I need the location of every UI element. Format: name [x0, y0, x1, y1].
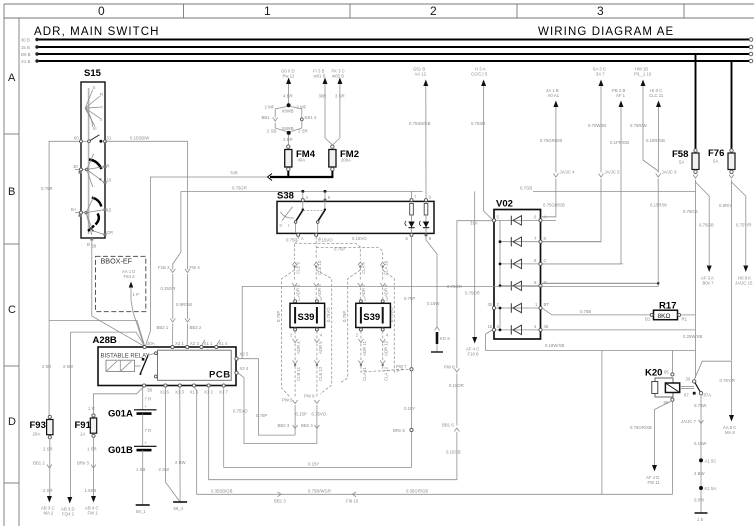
V02 diode 6 — [496, 325, 539, 334]
svg-text:PW 6: PW 6 — [304, 394, 315, 399]
svg-text:0.15W: 0.15W — [694, 441, 707, 446]
connector CLA 9 — [358, 262, 366, 282]
svg-text:15: 15 — [488, 324, 493, 329]
connector ADR 1 — [292, 283, 300, 300]
fuse F93 — [30, 415, 54, 439]
svg-text:0.75P: 0.75P — [286, 238, 297, 243]
svg-text:w01 B: w01 B — [314, 74, 326, 79]
svg-text:1 SB: 1 SB — [136, 467, 145, 472]
svg-text:45: 45 — [544, 324, 549, 329]
svg-text:Pw 12: Pw 12 — [283, 74, 296, 79]
bus line D6 — [21, 52, 753, 57]
terminal 4A 1 B — [540, 88, 575, 217]
A28B bottom pins — [143, 384, 229, 395]
svg-text:0.15Y: 0.15Y — [404, 406, 415, 411]
svg-text:B1: B1 — [645, 317, 651, 322]
terminal 6A 3 C — [542, 67, 620, 242]
wire column X2 3 (S15 31) — [105, 136, 202, 346]
wire 0.75OR to AF 4 C — [465, 191, 480, 356]
svg-text:0.75GR/SB: 0.75GR/SB — [630, 425, 652, 430]
terminal HM 1B — [542, 67, 677, 284]
svg-text:MA 8: MA 8 — [725, 430, 735, 435]
svg-text:2 5R: 2 5R — [42, 364, 51, 369]
svg-text:0.1FR/GB: 0.1FR/GB — [610, 140, 629, 145]
bus line 30 — [21, 37, 753, 42]
svg-text:A0 A1: A0 A1 — [548, 93, 560, 98]
svg-text:0.75OR: 0.75OR — [465, 291, 480, 296]
S39 dashed feed left — [295, 236, 383, 259]
F91 lower wire — [77, 437, 99, 515]
A28B switch blade — [140, 352, 158, 378]
V02 diode 1 — [496, 216, 539, 225]
svg-text:0.75WSB: 0.75WSB — [588, 123, 606, 128]
svg-text:0.15R/GB: 0.15R/GB — [646, 138, 665, 143]
svg-text:0.75VO: 0.75VO — [312, 412, 327, 417]
svg-text:0.15OR: 0.15OR — [449, 383, 464, 388]
resistor R17 — [645, 301, 688, 322]
svg-text:0.75B/WGR: 0.75B/WGR — [308, 489, 331, 494]
svg-text:0.5R/Y: 0.5R/Y — [719, 203, 732, 208]
svg-text:BB1 3: BB1 3 — [274, 499, 286, 504]
K20 switch — [684, 377, 711, 398]
svg-text:JA/JC 5: JA/JC 5 — [605, 170, 621, 175]
svg-text:FW 11: FW 11 — [648, 480, 661, 485]
wire PW5 chain — [278, 398, 307, 436]
svg-text:30R: 30R — [319, 94, 327, 99]
wire PW7 drop — [209, 364, 461, 480]
svg-text:BB1 6: BB1 6 — [442, 423, 454, 428]
svg-text:1: 1 — [264, 4, 271, 18]
svg-text:S15: S15 — [84, 68, 102, 79]
svg-text:AF 1: AF 1 — [616, 93, 626, 98]
switch unit S39 left — [290, 297, 325, 338]
svg-text:B+: B+ — [71, 207, 77, 212]
svg-text:F93: F93 — [30, 420, 46, 431]
svg-text:0.75W: 0.75W — [694, 403, 707, 408]
svg-text:0.15VO: 0.15VO — [318, 238, 333, 243]
svg-text:0.15W: 0.15W — [427, 301, 440, 306]
svg-text:PCB: PCB — [209, 370, 231, 381]
svg-text:w05 B: w05 B — [332, 74, 344, 79]
S38 lamp resistors — [410, 201, 428, 233]
switch S15 — [81, 68, 105, 238]
svg-text:BB2 3: BB2 3 — [278, 423, 290, 428]
svg-text:FW 1: FW 1 — [88, 511, 99, 516]
svg-text:R1: R1 — [682, 317, 688, 322]
svg-text:MA 2: MA 2 — [44, 511, 54, 516]
svg-text:2 SB: 2 SB — [267, 129, 276, 134]
svg-text:2 5W: 2 5W — [63, 364, 74, 369]
svg-text:B: B — [8, 186, 15, 198]
svg-text:ADR 4: ADR 4 — [296, 341, 301, 354]
svg-text:31: 31 — [107, 136, 112, 141]
svg-text:1.5SB: 1.5SB — [85, 488, 97, 493]
svg-text:X1 B: X1 B — [21, 59, 30, 64]
svg-text:85: 85 — [664, 370, 669, 375]
S38 LEDs — [405, 221, 429, 228]
svg-text:0.75SB/GB: 0.75SB/GB — [409, 121, 431, 126]
fuse FM2 — [329, 145, 359, 171]
diamond branch right KB1 — [290, 105, 317, 134]
stubs X1 1 X1 4 — [201, 340, 220, 346]
battery G01B — [108, 414, 157, 456]
svg-text:CLA 10: CLA 10 — [384, 260, 389, 275]
svg-text:BRn 3: BRn 3 — [77, 461, 90, 466]
svg-text:15: 15 — [107, 208, 112, 213]
svg-text:JA/JC 9: JA/JC 9 — [662, 170, 678, 175]
svg-text:F1B 3: F1B 3 — [158, 265, 170, 270]
svg-text:R: R — [100, 92, 103, 97]
svg-text:X8WB: X8WB — [282, 109, 294, 114]
svg-text:G01B: G01B — [108, 445, 133, 456]
svg-text:CLE 12: CLE 12 — [318, 366, 323, 381]
wire PW6 chain — [301, 394, 327, 444]
terminal F 3 A — [470, 67, 493, 226]
svg-text:87: 87 — [684, 393, 689, 398]
svg-text:PW 5: PW 5 — [282, 398, 293, 403]
svg-text:AA 12: AA 12 — [415, 72, 427, 77]
svg-text:F10 8: F10 8 — [468, 352, 480, 357]
svg-text:ADR 5: ADR 5 — [318, 341, 323, 354]
S15 contact row 31 — [74, 135, 112, 143]
svg-text:0.75P: 0.75P — [404, 296, 415, 301]
svg-text:X3 1: X3 1 — [175, 341, 184, 346]
connector CLA 10 — [380, 260, 388, 281]
svg-text:G01A: G01A — [108, 409, 133, 420]
wire F76 split to HB terminal — [732, 182, 754, 286]
svg-text:JA/JC 4: JA/JC 4 — [560, 170, 576, 175]
svg-text:CLC 11: CLC 11 — [649, 93, 664, 98]
svg-text:58: 58 — [92, 244, 97, 249]
V02 right pins — [534, 215, 549, 332]
svg-text:ADR, MAIN SWITCH: ADR, MAIN SWITCH — [34, 26, 160, 38]
svg-text:ADR 4: ADR 4 — [384, 284, 389, 297]
svg-text:D: D — [8, 416, 16, 428]
dashed bypass diagonals — [282, 270, 409, 397]
diode unit V02 — [494, 199, 541, 340]
V02 internal bus — [499, 220, 502, 331]
svg-text:3: 3 — [597, 4, 604, 18]
wire V02 pin3 to K20 85 — [486, 330, 696, 373]
svg-text:A1 5C: A1 5C — [705, 459, 717, 464]
battery G01A — [108, 387, 157, 420]
svg-text:19: 19 — [107, 178, 112, 183]
node junction F93 feed — [49, 321, 145, 347]
svg-text:0.75R: 0.75R — [41, 186, 52, 191]
svg-text:A: A — [301, 236, 304, 241]
svg-text:2 SR: 2 SR — [43, 488, 53, 493]
svg-text:2 BW: 2 BW — [175, 460, 186, 465]
fuse F76 with bus drop — [708, 61, 752, 361]
S15 deck 3 — [71, 197, 113, 249]
svg-text:0.5R/SB: 0.5R/SB — [176, 302, 192, 307]
S38 switch blades — [280, 202, 327, 233]
connector ADR 4 — [380, 283, 388, 300]
wire R17 to F58 line — [681, 315, 703, 378]
wire V02 BT to R17 — [542, 308, 650, 315]
wire K20 87A ground chain — [681, 395, 716, 522]
svg-text:KB1 4: KB1 4 — [305, 115, 317, 120]
svg-text:CLA 12: CLA 12 — [384, 366, 389, 381]
A28B right pins — [235, 352, 249, 375]
svg-text:PW 7: PW 7 — [396, 364, 407, 369]
S15 rotary position fan — [85, 90, 101, 128]
svg-text:KG 6: KG 6 — [440, 336, 450, 341]
svg-text:V02: V02 — [496, 199, 513, 210]
svg-text:2 SR: 2 SR — [43, 447, 53, 452]
connectors CLB CLE CLA lower — [293, 344, 389, 382]
svg-text:0.7GB: 0.7GB — [520, 186, 532, 191]
svg-text:B: B — [87, 242, 90, 247]
svg-text:FW 4: FW 4 — [190, 265, 201, 270]
svg-text:87A: 87A — [704, 393, 712, 398]
svg-text:JA/JC 7: JA/JC 7 — [681, 419, 697, 424]
svg-text:0.15R/W: 0.15R/W — [650, 203, 668, 208]
svg-text:0.75GB: 0.75GB — [683, 209, 698, 214]
svg-text:30 B: 30 B — [21, 37, 30, 42]
svg-text:2: 2 — [430, 4, 437, 18]
svg-text:5A: 5A — [713, 159, 718, 164]
svg-text:ADR 11: ADR 11 — [362, 341, 367, 356]
wire column X3 1 (BB2 1) — [157, 191, 181, 345]
svg-text:CLB 11: CLB 11 — [296, 366, 301, 381]
node X6WB top — [282, 103, 294, 113]
thick battery bus under fuses — [268, 171, 334, 181]
svg-text:CLE 9: CLE 9 — [296, 261, 301, 274]
svg-text:III: III — [93, 126, 97, 131]
fuse F91 — [75, 414, 97, 438]
svg-text:ADR 3: ADR 3 — [317, 284, 322, 297]
bus line X1 — [21, 59, 753, 64]
ruler column labels — [98, 4, 604, 18]
svg-text:BB1 2: BB1 2 — [33, 461, 45, 466]
svg-text:R: R — [107, 164, 110, 169]
wire V02 pin5 left drop 0.75GR — [444, 221, 492, 426]
svg-text:PW 8: PW 8 — [444, 365, 455, 370]
svg-text:4 BR: 4 BR — [283, 137, 293, 142]
wire S15 base to A28B — [92, 241, 145, 347]
svg-text:S39: S39 — [363, 312, 380, 323]
svg-text:GR: GR — [107, 230, 113, 235]
svg-text:0.75P: 0.75P — [256, 413, 267, 418]
svg-text:I: I — [102, 105, 103, 110]
connector CLE 10 — [314, 260, 322, 281]
svg-text:0.15VO: 0.15VO — [352, 236, 367, 241]
box BBOX-EF — [96, 256, 146, 345]
svg-text:30: 30 — [686, 377, 691, 382]
svg-text:2 MF: 2 MF — [297, 105, 307, 110]
svg-text:15 B: 15 B — [21, 45, 30, 50]
svg-text:CC/CJ 5: CC/CJ 5 — [471, 72, 488, 77]
svg-text:30A: 30A — [147, 341, 155, 346]
V02 diode 2 — [500, 237, 539, 246]
S38 right pins — [406, 191, 432, 241]
svg-text:40A: 40A — [298, 158, 306, 163]
terminal FI 3 B — [313, 69, 332, 145]
wire X2 4 link — [238, 373, 317, 444]
svg-text:0.75GR: 0.75GR — [447, 284, 462, 289]
svg-text:1 5: 1 5 — [697, 517, 704, 522]
relay K20 — [645, 368, 694, 406]
svg-text:0.75R/W: 0.75R/W — [630, 123, 648, 128]
svg-text:0.75VO: 0.75VO — [326, 307, 331, 322]
svg-text:7 R: 7 R — [145, 428, 152, 433]
svg-text:3 SR: 3 SR — [335, 94, 345, 99]
fuse FM4 — [285, 145, 316, 171]
svg-text:C: C — [544, 258, 547, 263]
svg-text:31A: 31A — [470, 221, 478, 226]
svg-text:0.75P: 0.75P — [276, 311, 281, 322]
svg-text:A28B: A28B — [93, 335, 117, 346]
svg-text:X1 3: X1 3 — [175, 390, 184, 395]
svg-text:X8WB: X8WB — [282, 126, 294, 131]
svg-text:BB2 4: BB2 4 — [301, 423, 313, 428]
svg-text:0.75Y/R: 0.75Y/R — [736, 223, 752, 228]
wire K20 pivot from F76 — [694, 361, 736, 435]
svg-text:F54 2: F54 2 — [124, 274, 136, 279]
diamond branch left BB1 — [262, 105, 288, 134]
svg-text:X1 6: X1 6 — [160, 390, 169, 395]
wire A28B feed 2 — [71, 332, 145, 500]
svg-text:0.75Y/R: 0.75Y/R — [720, 378, 736, 383]
svg-text:0.75B: 0.75B — [580, 309, 591, 314]
svg-text:200A: 200A — [341, 158, 351, 163]
svg-text:I: I — [288, 223, 289, 228]
svg-text:A: A — [8, 72, 16, 84]
svg-text:0.75GR: 0.75GR — [232, 186, 247, 191]
svg-text:ADR 12: ADR 12 — [384, 340, 389, 356]
svg-text:1 P: 1 P — [133, 292, 140, 297]
svg-text:2 SW: 2 SW — [159, 467, 170, 472]
bus line 15 — [21, 45, 753, 50]
svg-text:0.75GB: 0.75GB — [699, 223, 714, 228]
fuse F58 with bus drop — [672, 54, 699, 315]
svg-text:BB1: BB1 — [262, 115, 271, 120]
ground 59_1 — [136, 450, 150, 514]
svg-text:FI8 16: FI8 16 — [346, 499, 359, 504]
svg-text:X2 5: X2 5 — [240, 352, 249, 357]
svg-text:20A: 20A — [33, 432, 41, 437]
svg-text:WIRING DIAGRAM AE: WIRING DIAGRAM AE — [538, 26, 674, 38]
svg-text:S: S — [93, 85, 96, 90]
svg-text:X2 4: X2 4 — [240, 366, 249, 371]
svg-text:BBOX-EF: BBOX-EF — [101, 257, 133, 266]
svg-text:ADR 2: ADR 2 — [361, 284, 366, 297]
S38 bottom pins left — [297, 233, 322, 241]
S15 deck 2 — [73, 154, 112, 187]
svg-text:0.25W/SB: 0.25W/SB — [683, 334, 702, 339]
svg-text:CLA 9: CLA 9 — [361, 262, 366, 274]
wire K20 86 down — [671, 401, 673, 494]
svg-text:3B: 3B — [147, 388, 152, 393]
switch unit S39 right — [356, 297, 391, 338]
wire S38 pin8 KG6 screen — [426, 236, 450, 352]
wires V02 rows A K C D up-turns — [542, 220, 658, 283]
svg-text:1 R: 1 R — [88, 406, 95, 411]
svg-text:0.15SB/W: 0.15SB/W — [130, 136, 150, 141]
svg-text:P/L_1 10: P/L_1 10 — [634, 72, 652, 77]
svg-text:3A 7: 3A 7 — [596, 72, 605, 77]
terminal PB 2 B — [542, 88, 629, 264]
svg-text:8KΩ: 8KΩ — [658, 313, 671, 320]
svg-text:X2 3: X2 3 — [190, 341, 199, 346]
ground 59_4 — [159, 387, 188, 511]
svg-text:0.5W: 0.5W — [694, 498, 705, 503]
svg-text:F76: F76 — [708, 148, 724, 159]
wire S38 pin6 long drop — [224, 236, 416, 467]
svg-text:BB2 1: BB2 1 — [157, 325, 169, 330]
relay box A28B — [93, 335, 237, 386]
V02 diode 4 — [500, 281, 539, 290]
svg-text:7 R: 7 R — [145, 397, 152, 402]
svg-text:2 SR: 2 SR — [298, 129, 308, 134]
svg-text:0.75P: 0.75P — [342, 311, 347, 322]
svg-text:2 MF: 2 MF — [265, 105, 275, 110]
svg-text:0.75GR/SB: 0.75GR/SB — [543, 203, 565, 208]
svg-text:D6 B: D6 B — [21, 52, 31, 57]
svg-text:FQ4 2: FQ4 2 — [62, 512, 75, 517]
mid column terminal arrow — [42, 364, 75, 517]
svg-text:0.35SB/GB: 0.35SB/GB — [211, 489, 233, 494]
connectors ADR below S39 — [293, 331, 389, 356]
terminal HI 8 C — [646, 88, 714, 286]
F93 lower wire — [33, 439, 55, 516]
svg-text:60: 60 — [74, 136, 79, 141]
long wire to A28B X2 5 — [238, 282, 660, 435]
svg-text:S38: S38 — [277, 191, 294, 202]
svg-text:0.15GB: 0.15GB — [446, 450, 461, 455]
wire V02 pin 45 — [542, 329, 696, 331]
dashed merge to PW5 PW6 — [295, 366, 403, 398]
svg-text:BRn 5: BRn 5 — [393, 428, 406, 433]
ruler row labels — [8, 72, 16, 428]
svg-text:59_4: 59_4 — [174, 506, 184, 511]
svg-text:0.75VO: 0.75VO — [233, 409, 248, 414]
svg-text:1 SR: 1 SR — [87, 447, 97, 452]
node X6WB bottom — [282, 126, 294, 145]
connector ADR 3 — [314, 283, 322, 300]
V02 left pins — [488, 215, 500, 332]
svg-text:D: D — [544, 280, 547, 285]
svg-text:0.18W/SB: 0.18W/SB — [545, 343, 564, 348]
wire S15 pin60 to F93 column — [41, 141, 75, 416]
svg-text:F91: F91 — [75, 420, 92, 431]
svg-text:30: 30 — [73, 164, 78, 169]
svg-text:JA/JC 15: JA/JC 15 — [735, 281, 753, 286]
svg-text:S39: S39 — [298, 312, 315, 323]
svg-text:0.15Y: 0.15Y — [308, 462, 319, 467]
connector CLE 9 — [292, 261, 300, 281]
fuse F91 feed — [94, 387, 145, 416]
svg-text:BB3 2: BB3 2 — [190, 325, 202, 330]
svg-text:BT: BT — [544, 302, 550, 307]
svg-text:CLA 11: CLA 11 — [362, 367, 367, 381]
svg-text:K1 5A: K1 5A — [705, 486, 717, 491]
svg-text:4 BW: 4 BW — [694, 471, 705, 476]
svg-text:30: 30 — [488, 302, 493, 307]
svg-text:0.15P: 0.15P — [296, 412, 307, 417]
wire K20 86 branch AF 4 D — [630, 401, 672, 485]
svg-text:X1 5: X1 5 — [190, 390, 199, 395]
V02 diode 3 — [500, 259, 539, 268]
svg-text:A: A — [544, 215, 547, 220]
svg-text:0.75SR: 0.75SR — [471, 121, 485, 126]
svg-text:70R: 70R — [230, 171, 238, 176]
terminal G61 B — [409, 67, 431, 199]
svg-text:0.75GR/GB: 0.75GR/GB — [540, 138, 562, 143]
long wire 31A horizontal — [181, 186, 696, 193]
wire 70R to A28B — [145, 171, 267, 347]
